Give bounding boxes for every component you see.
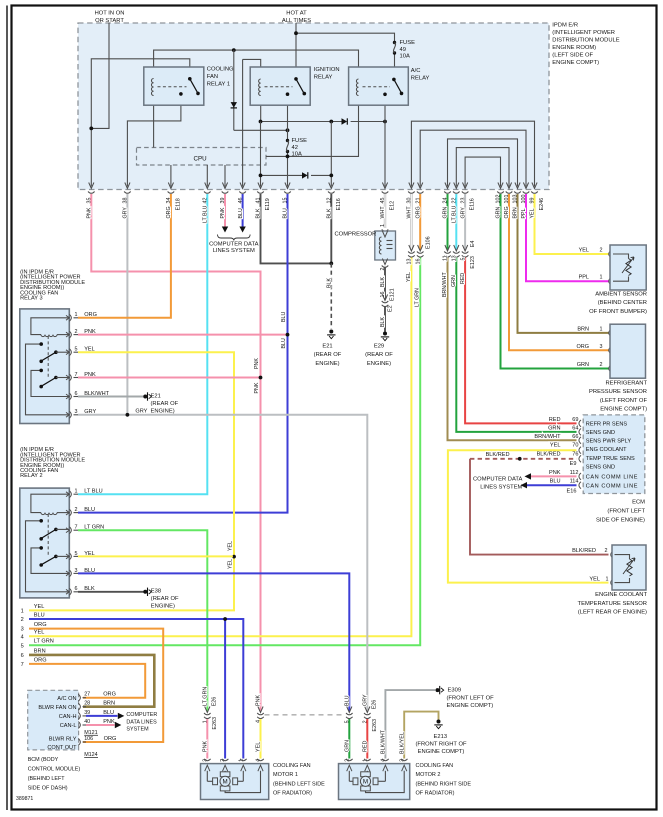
IPDM pin 15 (BLU) connector [283, 183, 291, 204]
svg-text:27: 27 [84, 692, 90, 698]
wire: A/C relay common to pin 45 [384, 94, 386, 186]
svg-text:49: 49 [400, 47, 406, 53]
wire GRN: pin24 to connector E4 [447, 194, 449, 250]
svg-text:ENGINE): ENGINE) [315, 361, 339, 367]
svg-text:ENGINE COOLANT: ENGINE COOLANT [595, 592, 647, 598]
svg-text:2: 2 [21, 617, 24, 623]
svg-text:ECM: ECM [632, 500, 645, 506]
svg-text:RED: RED [363, 741, 369, 752]
engine coolant temperature sensor box [611, 545, 646, 590]
svg-text:64: 64 [572, 425, 578, 431]
svg-text:E29: E29 [374, 344, 384, 350]
svg-text:E26: E26 [212, 697, 218, 707]
svg-text:E106: E106 [426, 236, 432, 249]
ECM wire color+pin labels [534, 417, 578, 495]
svg-text:A/C: A/C [411, 68, 421, 74]
IPDM pin 41 (BLK) connector [256, 183, 271, 211]
svg-text:(BEHIND LEFT: (BEHIND LEFT [28, 776, 66, 782]
labels 13 YEL [406, 259, 413, 283]
relay: IGNITION RELAY [250, 67, 310, 105]
svg-text:LT GRN: LT GRN [415, 288, 421, 307]
svg-text:1: 1 [606, 576, 609, 582]
label HOT AT ALL TIMES [282, 11, 311, 25]
junctions on tie bus [259, 120, 387, 124]
label IGNITION RELAY [314, 67, 340, 81]
BCM pin connectors [78, 694, 86, 745]
svg-text:OF FRONT BUMPER): OF FRONT BUMPER) [589, 309, 647, 315]
svg-text:PNK: PNK [256, 695, 262, 706]
svg-text:389871: 389871 [16, 796, 33, 802]
relay 3 pin stubs and labels [66, 312, 110, 418]
wire: pin46 riser crossing CPU [242, 59, 244, 186]
svg-text:ENG COOLANT: ENG COOLANT [586, 447, 627, 453]
svg-text:GRN: GRN [345, 740, 351, 752]
wire: pin41 riser (ignition coil low) [260, 122, 262, 187]
svg-text:7: 7 [75, 525, 78, 531]
wire PNK: pin35 down, across, down to motor1 connector [91, 194, 260, 711]
wire PNK: relay3 pin2 to BLU junction [78, 334, 288, 336]
wire BLK/YEL: motor2 pin3 to ground E213 [399, 712, 438, 759]
svg-text:(REAR OF: (REAR OF [151, 401, 179, 407]
svg-text:1: 1 [21, 609, 24, 615]
svg-text:(REAR OF: (REAR OF [314, 352, 342, 358]
labels BLK 16 E121 [380, 277, 395, 301]
svg-text:PNK: PNK [254, 382, 260, 393]
IPDM pin 24 (GRN) connector [443, 183, 451, 204]
ECM module box (dashed) [583, 415, 645, 494]
label PPL (pin100) [521, 208, 527, 218]
svg-text:BLWR FAN ON: BLWR FAN ON [38, 705, 76, 711]
svg-text:RELAY 2: RELAY 2 [20, 473, 42, 479]
svg-text:WHT: WHT [407, 206, 413, 219]
svg-text:SENS GND: SENS GND [586, 430, 615, 436]
BCM pin function labels [38, 696, 77, 751]
wire ORG line7 to BCM 27 [29, 664, 145, 698]
svg-text:LINES SYSTEM: LINES SYSTEM [213, 248, 255, 254]
svg-text:COOLING: COOLING [207, 67, 234, 73]
svg-text:1: 1 [75, 312, 78, 318]
svg-text:SIDE OF DASH): SIDE OF DASH) [28, 786, 68, 792]
svg-text:BLU: BLU [238, 208, 244, 218]
junction dot BLK wires at E21 drop [329, 262, 333, 266]
label GRN (pin102) [496, 207, 502, 219]
IPDM pin 39 (PNK) connector [220, 183, 228, 204]
svg-text:YEL: YEL [34, 630, 45, 636]
relay: COOLING FAN RELAY 3 (upper left) [20, 309, 70, 424]
labels PNK above/below junction [254, 358, 260, 394]
IPDM pin 45 (WHT) connector [380, 183, 395, 211]
arrows into computer data lines system (top) [222, 227, 246, 233]
svg-text:HOT IN ON: HOT IN ON [95, 11, 125, 17]
wire: jumper U pin 30-99 [411, 121, 534, 186]
junction dot PNK riser [259, 376, 263, 380]
label GRY (pin23) [460, 207, 466, 219]
cooling fan motor 1 [201, 759, 269, 800]
label FUSE 42 10A [292, 138, 308, 158]
wire BLK: pin12 down to E21 junction [330, 194, 332, 263]
svg-text:RELAY: RELAY [411, 76, 430, 82]
svg-text:CPU: CPU [194, 156, 207, 163]
wire YEL: connector to motor1 pin 4 [256, 719, 262, 759]
label BLU (pin46 wire) [238, 208, 244, 218]
svg-text:COOLING FAN: COOLING FAN [273, 763, 311, 769]
CPU box inside IPDM [137, 148, 267, 166]
svg-text:5: 5 [21, 643, 24, 649]
svg-text:13: 13 [452, 255, 458, 261]
wire YEL: relay3 pin5 to yellow riser [29, 352, 234, 610]
wire: HOT IN ON feed down to junction [91, 23, 109, 129]
label GRY (pin38 wire) [123, 207, 129, 219]
svg-text:6: 6 [75, 391, 78, 397]
svg-text:BLK: BLK [380, 277, 386, 287]
wire: main bus from relay1 coil to A/C relay coil (y=50) [154, 50, 359, 79]
wire: jumper U pin 21-100 [420, 130, 526, 186]
svg-text:1: 1 [380, 224, 386, 227]
svg-text:YEL: YEL [579, 248, 589, 254]
wire YEL: E106-13 down to BCM line4 [29, 258, 411, 637]
svg-text:70: 70 [572, 443, 578, 449]
svg-text:FUSE: FUSE [400, 40, 416, 46]
junction dot GRY [126, 413, 130, 417]
svg-text:3: 3 [21, 627, 24, 633]
svg-text:E21: E21 [151, 393, 161, 399]
svg-text:(BEHIND CENTER: (BEHIND CENTER [598, 300, 647, 306]
svg-text:E4: E4 [470, 241, 476, 248]
wire PNK: pin39 CAN to computer data arrow [224, 194, 226, 227]
svg-text:114: 114 [570, 479, 579, 485]
cooling fan motor 2 [339, 759, 410, 800]
diagram number 389871 [16, 796, 33, 802]
label COMPRESSOR [335, 232, 377, 238]
svg-text:PRESSURE SENSOR: PRESSURE SENSOR [589, 389, 647, 395]
junction: bus to diode branch [232, 48, 236, 52]
relay 2 pin stubs and labels [66, 489, 104, 596]
svg-text:ORG: ORG [84, 312, 97, 318]
BCM pin numbers and colors [84, 692, 116, 742]
wire PNK: CAN to ECM 112 [530, 475, 577, 477]
svg-text:RELAY 1: RELAY 1 [207, 82, 230, 88]
labels BLK/RED 2 at coolant sensor [572, 548, 607, 554]
svg-text:RED: RED [549, 417, 561, 423]
svg-text:COMPUTER: COMPUTER [126, 712, 157, 718]
label BCM (BODY CONTROL MODULE) [28, 757, 81, 792]
IPDM pin 30 (WHT) connector [407, 183, 415, 204]
svg-text:RELAY 3: RELAY 3 [20, 296, 42, 302]
svg-text:PPL: PPL [521, 208, 527, 218]
svg-text:39: 39 [84, 710, 90, 716]
IPDM pin 38 (GRY) connector [123, 183, 131, 204]
IPDM pin 34 (ORG) connector [166, 183, 181, 211]
IPDM pin 35 (PNK) connector [87, 183, 95, 204]
svg-text:7: 7 [75, 372, 78, 378]
svg-text:E118: E118 [176, 198, 182, 210]
wire BLU: BCM CAN-H to computer data arrow [86, 715, 118, 717]
svg-text:BLK: BLK [327, 208, 333, 218]
svg-text:LINES SYSTEM: LINES SYSTEM [480, 485, 522, 491]
svg-text:1: 1 [600, 275, 603, 281]
wire BLK dashed drop to ground E21 [330, 263, 332, 328]
label COOLING FAN MOTOR 2 [416, 763, 472, 797]
svg-text:5: 5 [460, 258, 466, 261]
wire: lower tie y=175.4 with diode [259, 174, 334, 178]
svg-text:HOT AT: HOT AT [286, 11, 307, 17]
svg-text:YEL: YEL [530, 208, 536, 218]
svg-text:ENGINE COMPT): ENGINE COMPT) [418, 749, 465, 755]
label BLK (pin41 wire) [256, 208, 262, 218]
svg-text:(FRONT LEFT: (FRONT LEFT [607, 509, 645, 515]
ECM pin connector arcs [579, 420, 581, 489]
svg-text:CAN-L: CAN-L [60, 723, 77, 729]
svg-text:LT BLU: LT BLU [452, 205, 458, 223]
label ECM (FRONT LEFT SIDE OF ENGINE) [596, 500, 645, 524]
IPDM pin 21 (ORG) connector [415, 183, 423, 204]
label BRN (pin103) [513, 207, 519, 218]
svg-text:AMBIENT SENSOR: AMBIENT SENSOR [595, 292, 647, 298]
label M121 underlined [84, 730, 98, 736]
svg-text:E309: E309 [448, 688, 462, 694]
svg-text:ORG: ORG [34, 622, 47, 628]
svg-text:ENGINE COMPT): ENGINE COMPT) [600, 407, 647, 413]
svg-text:FAN: FAN [207, 74, 218, 80]
svg-text:E263: E263 [372, 719, 378, 732]
label COMPUTER DATA LINES SYSTEM (top) [209, 242, 259, 255]
svg-text:BRN: BRN [34, 648, 46, 654]
svg-text:MOTOR 2: MOTOR 2 [416, 772, 441, 778]
svg-text:YEL: YEL [256, 742, 262, 752]
junction: HOT IN ON to pin35 riser [89, 126, 93, 130]
svg-text:BLU: BLU [34, 612, 45, 618]
labels YEL above/below junction [227, 541, 233, 569]
ambient sensor box [609, 245, 646, 290]
label A/C RELAY [411, 68, 430, 82]
svg-text:2: 2 [75, 507, 78, 513]
wire LT BLU: pin42 down to relay2 pin1 [78, 194, 207, 494]
label BLU (pin15 wire) [283, 208, 289, 218]
svg-text:4: 4 [21, 634, 24, 640]
svg-text:ALL TIMES: ALL TIMES [282, 18, 311, 24]
label GRN (pin24) [443, 207, 449, 219]
IPDM pin 42 (LT BLU) connector [203, 183, 211, 204]
svg-text:(BEHIND LEFT SIDE: (BEHIND LEFT SIDE [273, 781, 325, 787]
svg-text:BLU: BLU [345, 695, 351, 706]
label GRY after junction [135, 409, 147, 415]
svg-text:E38: E38 [151, 589, 161, 595]
svg-text:OF RADIATOR): OF RADIATOR) [416, 791, 455, 797]
svg-text:2: 2 [75, 329, 78, 335]
label YEL (pin99) [530, 208, 536, 218]
svg-text:E9: E9 [570, 461, 577, 467]
svg-text:M: M [223, 779, 228, 786]
svg-text:76: 76 [572, 451, 578, 457]
svg-text:A/C ON: A/C ON [57, 696, 76, 702]
IPDM pin 12 (BLK) connector [327, 183, 342, 211]
fuse 49 [393, 41, 396, 55]
labels YEL 1 at coolant sensor [589, 576, 608, 582]
svg-text:LT GRN: LT GRN [34, 639, 54, 645]
svg-text:BLK: BLK [256, 208, 262, 218]
wire RED: E123-5 to ECM 69 [465, 258, 576, 424]
IPDM pin 101 (ORG) connector [504, 183, 512, 204]
svg-text:GRY: GRY [123, 207, 129, 219]
wire: tie bus y=121.5 with diode to A/C common [261, 121, 386, 123]
svg-text:3: 3 [600, 344, 603, 350]
label BLK (E21 drop) [327, 278, 333, 288]
svg-text:E16: E16 [567, 489, 577, 495]
junction dot YEL riser [232, 555, 236, 559]
IPDM pin 22 (LT BLU) connector [452, 183, 460, 204]
arrows into computer data lines system (BCM) [115, 713, 125, 729]
wire: A/C relay coil low side to CPU right edge [266, 96, 359, 159]
svg-text:TEMPERATURE SENSOR: TEMPERATURE SENSOR [578, 601, 647, 607]
svg-text:CONTROL MODULE): CONTROL MODULE) [28, 767, 81, 773]
svg-text:SIDE OF ENGINE): SIDE OF ENGINE) [596, 518, 645, 524]
svg-text:7: 7 [21, 662, 24, 668]
label COMPUTER DATA LINES SYSTEM (ECM) [473, 477, 523, 491]
wire ORG: pin101 to refrigerant pressure sensor pin 3 [509, 194, 609, 350]
ground E21 (rear of engine) below BLK drop [314, 330, 342, 367]
svg-text:SYSTEM: SYSTEM [126, 727, 149, 733]
svg-text:(INTELLIGENT POWER: (INTELLIGENT POWER [552, 30, 615, 36]
wire LT BLU: pin22 to connector E4 [455, 194, 457, 250]
wire: diode branch vertical x=233.8 [233, 50, 235, 130]
svg-text:ENGINE COMPT): ENGINE COMPT) [447, 703, 494, 709]
junction dot BLU/PNK at 287.5,334.6 [286, 333, 290, 337]
label M124 underlined [84, 752, 98, 758]
svg-text:GRY: GRY [460, 207, 466, 219]
svg-text:ORG: ORG [34, 657, 47, 663]
wire BRN line6 to BCM 28 [29, 655, 154, 707]
svg-text:GRY: GRY [135, 409, 147, 415]
svg-text:(FRONT RIGHT OF: (FRONT RIGHT OF [416, 741, 467, 747]
labels 16 LT GRN [415, 259, 422, 308]
svg-text:E123: E123 [470, 256, 476, 269]
wire BLU: CAN to ECM 114 [526, 484, 577, 486]
svg-text:E21: E21 [322, 344, 332, 350]
svg-text:GRN: GRN [577, 362, 589, 368]
label LT BLU (pin22) [452, 205, 458, 223]
svg-text:OR START: OR START [95, 18, 124, 24]
wire BLK/WHT: motor2 pin4 to ground E309 [381, 690, 436, 758]
inline connector on BLU->GRN (motor2 pin2) [345, 695, 353, 723]
svg-text:GRN: GRN [548, 425, 560, 431]
svg-text:COMPUTER DATA: COMPUTER DATA [473, 477, 523, 483]
wire PNK: BCM CAN-L to computer data arrow [86, 724, 115, 726]
svg-text:COMPUTER DATA: COMPUTER DATA [209, 242, 259, 248]
svg-text:BRN/WHT: BRN/WHT [442, 272, 448, 297]
label PNK (pin35 wire) [87, 207, 93, 218]
svg-text:BRN/WHT: BRN/WHT [534, 434, 561, 440]
svg-text:1: 1 [75, 489, 78, 495]
IPDM pin 99 (YEL) connector [530, 183, 545, 211]
svg-text:YEL: YEL [227, 559, 233, 569]
label WHT (pin30) [407, 206, 413, 219]
labels BLK/RED on dashed wire [486, 452, 510, 458]
diode D1 pointing down [231, 102, 237, 108]
label AMBIENT SENSOR [589, 292, 647, 315]
svg-text:CONT OUT: CONT OUT [47, 745, 77, 751]
svg-text:YEL: YEL [34, 604, 45, 610]
svg-text:ORG: ORG [166, 206, 172, 218]
wire RED: connector to motor2 pin 1 [363, 719, 369, 759]
svg-text:BLU: BLU [281, 338, 287, 348]
IPDM E/R name label [552, 23, 619, 67]
label BLK (pin12 wire) [327, 208, 333, 218]
svg-text:LT GRN: LT GRN [203, 687, 209, 706]
svg-text:WHT: WHT [380, 206, 386, 219]
svg-text:E12: E12 [390, 201, 396, 211]
IPDM pin 23 (GRY) connector [460, 183, 475, 211]
svg-text:ORG: ORG [104, 736, 117, 742]
svg-text:YEL: YEL [550, 443, 561, 449]
label ORG (pin101) [504, 206, 510, 218]
svg-text:ENGINE): ENGINE) [367, 361, 391, 367]
svg-text:PNK: PNK [549, 470, 561, 476]
wire: jumper U pin 23-102 [465, 157, 500, 186]
svg-text:PPL: PPL [579, 275, 589, 281]
svg-text:3: 3 [75, 409, 78, 415]
svg-text:BLWR RLY: BLWR RLY [49, 737, 77, 743]
svg-text:CAN COMM LINE: CAN COMM LINE [586, 475, 638, 481]
wire PPL: pin100 to ambient sensor pin 1 [526, 194, 609, 281]
wire: fuse 49 to A/C relay switch [394, 53, 396, 79]
left line 2 BLU label [21, 612, 45, 623]
svg-text:CAN COMM LINE: CAN COMM LINE [586, 483, 638, 489]
svg-text:CAN-H: CAN-H [59, 714, 77, 720]
svg-text:66: 66 [572, 434, 578, 440]
svg-text:(BEHIND RIGHT SIDE: (BEHIND RIGHT SIDE [416, 781, 472, 787]
brace computer data lines system [218, 235, 251, 241]
svg-text:YEL: YEL [406, 272, 412, 282]
labels BLU above/below junction [281, 312, 287, 349]
svg-text:BLK: BLK [327, 278, 333, 288]
svg-text:BLU: BLU [84, 507, 95, 513]
svg-text:5: 5 [75, 551, 78, 557]
ground E29 (rear of engine) [365, 332, 393, 367]
svg-text:ENGINE): ENGINE) [151, 604, 175, 610]
svg-text:5: 5 [75, 347, 78, 353]
label COOLING FAN RELAY 1 [207, 67, 234, 88]
diode D2 pointing right on tie bus [342, 118, 348, 124]
label (IN IPDM E/R ...) COOLING FAN RELAY 3 [20, 270, 85, 302]
label (IN IPDM E/R ...) COOLING FAN RELAY 2 [20, 447, 85, 479]
svg-text:RELAY: RELAY [314, 75, 333, 81]
svg-text:TEMP TRUE SENS: TEMP TRUE SENS [586, 456, 635, 462]
svg-text:1: 1 [600, 326, 603, 332]
svg-text:E121: E121 [390, 288, 396, 301]
svg-text:112: 112 [570, 470, 579, 476]
svg-text:ORG: ORG [504, 206, 510, 218]
svg-text:BCM (BODY: BCM (BODY [28, 757, 59, 763]
svg-text:PNK: PNK [87, 207, 93, 218]
svg-text:OF RADIATOR): OF RADIATOR) [273, 791, 312, 797]
ground E21 (relay3 pin6) [143, 392, 178, 414]
svg-text:IGNITION: IGNITION [314, 67, 340, 73]
svg-text:GRN: GRN [451, 275, 457, 287]
relay: A/C RELAY [349, 67, 409, 105]
left line 5 LT GRN label [21, 639, 54, 650]
wire BLK/RED dashed: ECM 76 sens gnd [470, 457, 577, 461]
svg-text:28: 28 [84, 701, 90, 707]
label compressor pin 1 [380, 224, 386, 227]
labels YEL 2 at ambient sensor [579, 248, 603, 254]
refrigerant pressure sensor box [609, 324, 646, 378]
svg-text:E119: E119 [265, 198, 271, 210]
wire: CPU outputs to pins 34/42/39 [171, 165, 225, 187]
BCM module box (dashed) [28, 690, 79, 750]
IPDM E/R module box (dashed) [78, 23, 549, 190]
svg-text:2: 2 [600, 248, 603, 254]
wire BLK: connector E2 to ground E29 [384, 307, 386, 332]
